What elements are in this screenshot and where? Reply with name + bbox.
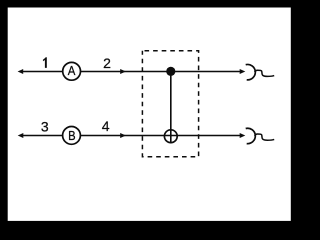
CNOT control dot [166,67,175,76]
svg-text:2: 2 [103,55,111,71]
arrowhead left, bottom rail [18,133,24,138]
node label 3 [41,119,49,135]
detector D1 (top) [246,64,275,79]
CNOT gate dashed box [142,51,198,157]
svg-text:4: 4 [102,118,110,134]
node label 2 [103,55,111,71]
node label 4 [102,118,110,134]
arrowhead right (into detector), top rail [240,69,246,74]
svg-text:B: B [68,128,76,143]
arrowhead mid (rightward), top rail [120,69,126,74]
wire: bottom rail (mode 3 -> 4) [21,135,244,137]
CNOT target (XOR) [164,130,177,143]
svg-text:A: A [68,63,76,78]
white inner area [8,8,291,221]
arrowhead left, top rail [18,69,24,74]
detector D2 (bottom) [246,128,275,143]
svg-text:3: 3 [41,119,49,135]
arrowhead right (into detector), bottom rail [240,133,246,138]
arrowhead mid (rightward), bottom rail [120,133,126,138]
source A [63,62,81,80]
source B [63,126,81,144]
node label 1 [43,57,47,67]
wire: top rail (mode 1 -> 2) [21,71,244,73]
wire: CNOT control-target vertical link [170,72,172,144]
